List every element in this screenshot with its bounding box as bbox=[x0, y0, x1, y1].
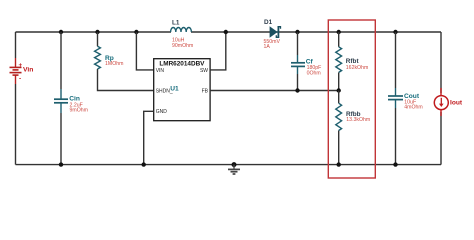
resistor Rfbt bbox=[336, 47, 342, 73]
diode D1 schottky bbox=[270, 26, 281, 38]
svg-text:9mOhm: 9mOhm bbox=[70, 107, 88, 113]
svg-text:+: + bbox=[19, 62, 23, 69]
node junction FB Rfbb bbox=[337, 88, 341, 92]
svg-text:GND: GND bbox=[156, 109, 168, 115]
node junction Cin bottom bbox=[59, 162, 63, 166]
wire Rp branch to SHDN bbox=[98, 32, 154, 91]
svg-text:1A: 1A bbox=[264, 44, 271, 50]
capacitor Cf bbox=[291, 55, 305, 74]
wire Cout branch bbox=[395, 32, 397, 165]
svg-text:-: - bbox=[19, 76, 21, 83]
svg-text:FB: FB bbox=[202, 88, 209, 94]
node junction Rfbt top bbox=[337, 30, 341, 34]
wire Rfbb branch bbox=[338, 91, 340, 165]
node junction ground bbox=[232, 162, 237, 167]
wire Cf branch bbox=[297, 32, 299, 91]
svg-text:D1: D1 bbox=[264, 19, 273, 26]
svg-text:4mOhm: 4mOhm bbox=[404, 105, 422, 111]
resistor Rfbb bbox=[336, 103, 342, 130]
wire left vertical bbox=[15, 32, 17, 165]
wire right vertical bbox=[440, 32, 442, 165]
battery V1 Vin bbox=[10, 58, 23, 84]
wire bottom rail bbox=[16, 164, 442, 166]
inductor L1 bbox=[171, 28, 192, 33]
wire VIN branch bbox=[136, 32, 153, 70]
wire GND branch bbox=[144, 111, 154, 164]
wire Cin branch bbox=[60, 32, 62, 165]
ground bbox=[228, 165, 240, 174]
svg-text:Iout: Iout bbox=[450, 100, 463, 107]
svg-text:VIN: VIN bbox=[156, 68, 165, 74]
node junction Rp top bbox=[95, 30, 99, 34]
current source Iout bbox=[434, 88, 448, 116]
capacitor Cin bbox=[54, 89, 68, 113]
resistor Rp bbox=[95, 46, 101, 69]
capacitor Cout bbox=[388, 88, 403, 108]
node junction GND bottom bbox=[142, 162, 146, 166]
wire Rfbt branch bbox=[338, 32, 340, 91]
node junction Cout top bbox=[393, 30, 397, 34]
wire SW branch bbox=[210, 32, 226, 70]
node junction Cout bottom bbox=[393, 162, 397, 166]
wire top rail bbox=[16, 31, 442, 33]
svg-text:SW: SW bbox=[200, 68, 208, 74]
svg-text:0Ohm: 0Ohm bbox=[307, 70, 321, 76]
svg-text:U1: U1 bbox=[170, 86, 179, 93]
svg-text:1MOhm: 1MOhm bbox=[105, 61, 123, 67]
highlight box feedback divider bbox=[328, 20, 375, 178]
svg-text:LMR62014DBV: LMR62014DBV bbox=[159, 60, 205, 67]
svg-text:Vin: Vin bbox=[23, 67, 33, 74]
node junction D1 cathode bbox=[295, 30, 299, 34]
node junction Cf bottom bbox=[295, 88, 299, 92]
svg-text:90mOhm: 90mOhm bbox=[172, 43, 193, 49]
node junction VIN drop bbox=[134, 30, 138, 34]
node junction SW top bbox=[224, 30, 228, 34]
svg-text:162kOhm: 162kOhm bbox=[346, 65, 369, 71]
svg-text:13.3kOhm: 13.3kOhm bbox=[346, 117, 370, 123]
svg-text:L1: L1 bbox=[172, 19, 180, 26]
node junction Cin top bbox=[59, 30, 63, 34]
wire FB line bbox=[210, 90, 339, 92]
node junction Rfbb bottom bbox=[337, 162, 341, 166]
op-amp U1 IC box LMR62014DBV bbox=[154, 59, 210, 121]
